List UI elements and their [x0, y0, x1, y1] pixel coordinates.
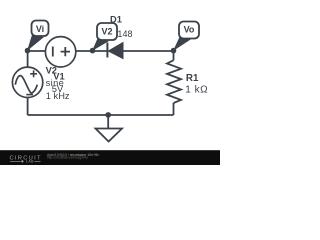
junction node V2 (between source and diode)	[90, 48, 96, 54]
wire main row middle: source V2 right terminal to diode anode	[76, 50, 108, 52]
node flag Vo pointer wedge	[173, 37, 191, 51]
svg-text:http:/circuitlab.com/csgm4u: http:/circuitlab.com/csgm4u	[47, 156, 88, 160]
node flag V2 box	[97, 23, 117, 40]
wire ground stub	[107, 115, 109, 129]
wire main row left: node A to source V2 left terminal	[28, 50, 46, 52]
svg-text:Vo: Vo	[184, 25, 195, 35]
CircuitLab logo LAB row	[10, 160, 41, 162]
AC source V1 (sine source circle)	[12, 67, 42, 97]
resistor R1 zigzag	[167, 60, 181, 103]
ground symbol	[96, 129, 123, 142]
junction node ground	[105, 112, 111, 118]
wire right column bottom lead of R1	[173, 103, 175, 115]
svg-text:1 kΩ: 1 kΩ	[185, 85, 208, 96]
junction node Vo (right)	[171, 48, 177, 54]
svg-text:1 kHz: 1 kHz	[46, 91, 70, 101]
diode D1 (cathode bar + filled triangle pointing left)	[107, 43, 123, 59]
wire left column: node A down to AC source V1 top	[27, 51, 29, 67]
watermark bar	[0, 150, 220, 165]
svg-text:R1: R1	[186, 73, 199, 84]
node flag Vo box	[179, 22, 199, 39]
source V2 (DC source circle with | + )	[45, 37, 75, 67]
wire left column lower: AC source V1 bottom to bottom rail	[27, 97, 29, 115]
wire bottom rail	[28, 114, 174, 116]
wire main row right: diode cathode side to node Vo	[123, 50, 174, 52]
svg-text:Vi: Vi	[36, 24, 44, 34]
wire right column top lead of R1	[173, 51, 175, 60]
node flag Vi box	[32, 21, 49, 37]
node flag V2 pointer wedge	[92, 39, 109, 52]
junction node A (left)	[25, 48, 31, 54]
node flag Vi pointer wedge	[27, 35, 44, 51]
svg-text:V2: V2	[101, 27, 112, 37]
svg-text:LAB: LAB	[26, 160, 34, 164]
